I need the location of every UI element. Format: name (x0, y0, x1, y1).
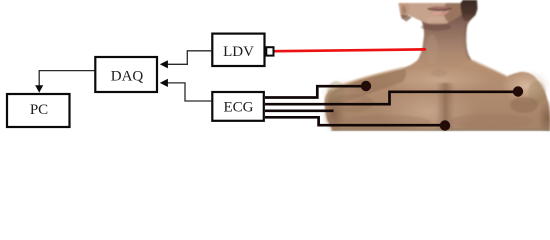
wire ECG lead 4 (to lower chest electrode) (265, 117, 441, 125)
chest central light (378, 87, 478, 137)
wire ECG lead 1 (to left chest electrode) (265, 86, 362, 97)
left shoulder crest light rim (331, 68, 404, 90)
left under-crest shadow (330, 94, 374, 112)
wire ECG lead 3 (to shoulder edge) (265, 109, 334, 112)
right cheek shadow (443, 3, 463, 23)
svg-text:LDV: LDV (223, 44, 254, 60)
mouth line (428, 8, 452, 10)
left ear (399, 3, 410, 19)
olive tint right shoulder edge (528, 81, 546, 105)
olive tint left shoulder edge (327, 81, 345, 105)
white strip below torso image (318, 131, 550, 139)
hair patch right (461, 0, 478, 21)
box PC (7, 94, 70, 127)
chin crease shadow (421, 23, 451, 31)
trapezius mid shading left (328, 69, 407, 106)
right arm edge shadow (538, 99, 550, 137)
left deltoid highlight (321, 79, 365, 109)
box ECG (212, 92, 263, 121)
face lower half (cheeks, chin, jaw) (399, 3, 464, 25)
lower pec shading left (339, 115, 431, 129)
neck right edge shade (465, 24, 470, 60)
box LDV (212, 34, 264, 66)
svg-text:DAQ: DAQ (111, 68, 144, 84)
electrode dot lower chest (440, 120, 450, 130)
behind ear shadow (401, 15, 413, 22)
arrowhead into PC (35, 85, 43, 93)
box DAQ (95, 57, 157, 92)
torso bottom edge band (331, 128, 550, 131)
wire ECG to DAQ (167, 83, 211, 101)
ear inner shadow (402, 5, 406, 14)
right trapezius light rim (473, 61, 508, 78)
upper lip (428, 6, 452, 10)
wire DAQ to PC (39, 71, 95, 86)
svg-text:ECG: ECG (224, 99, 254, 115)
lower pec shading right (450, 114, 534, 128)
neck column shadow (418, 12, 471, 70)
sternum shadow (436, 83, 455, 131)
electrode dot left chest (361, 81, 371, 91)
wire ECG lead 2 (to right chest electrode) (265, 92, 514, 104)
chin highlight (426, 17, 444, 24)
wire LDV to DAQ (167, 51, 211, 65)
left armpit shadow (322, 95, 346, 133)
torso silhouette (neck, shoulders, chest of subject) (325, 0, 550, 131)
clavicle light band (383, 66, 493, 94)
lower lip highlight (432, 12, 442, 15)
svg-text:PC: PC (30, 102, 48, 118)
suprasternal notch shadow (431, 69, 447, 77)
electrode dot right chest (513, 86, 523, 96)
laser beam (red) from LDV to neck (275, 49, 425, 51)
right pec crease shadow (510, 97, 538, 113)
arrowhead into DAQ lower (160, 79, 168, 87)
arrowhead into DAQ upper (160, 60, 168, 68)
LDV output connector square (266, 47, 273, 55)
right deltoid highlight (501, 70, 550, 102)
lower lip (430, 10, 451, 15)
neck left light strip (426, 34, 438, 64)
